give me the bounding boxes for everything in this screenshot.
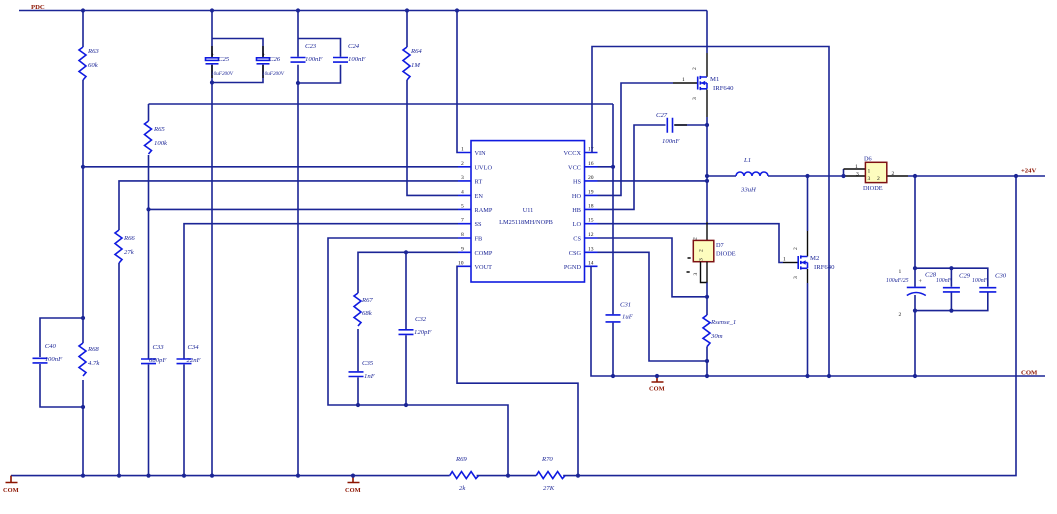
- capacitor C33: [141, 344, 167, 364]
- wire VIN pin1 from rail: [457, 11, 458, 153]
- wire UVLO pin2: [83, 166, 458, 168]
- capacitor C25 polarized: [206, 53, 234, 77]
- svg-text:2: 2: [699, 249, 705, 252]
- wire C26 black legs: [262, 46, 264, 78]
- svg-text:C23: C23: [305, 43, 317, 50]
- ground COM mid-bottom: [345, 476, 361, 494]
- svg-text:COM: COM: [649, 386, 665, 393]
- svg-text:DIODE: DIODE: [716, 251, 736, 258]
- node PDC top rail: [19, 4, 707, 11]
- svg-text:CS: CS: [573, 236, 581, 243]
- wire FB pin8 network: [328, 238, 508, 476]
- svg-text:VCCX: VCCX: [564, 150, 582, 157]
- svg-text:18: 18: [588, 203, 594, 209]
- svg-text:HO: HO: [572, 193, 582, 200]
- capacitor C27: [656, 112, 680, 145]
- capacitor C30: [972, 273, 1007, 292]
- svg-text:7: 7: [461, 218, 464, 224]
- wire HB pin18 to C27: [598, 125, 708, 209]
- svg-text:R63: R63: [87, 48, 99, 55]
- svg-text:RT: RT: [475, 178, 483, 185]
- svg-text:VOUT: VOUT: [475, 264, 493, 271]
- svg-text:12: 12: [588, 232, 594, 238]
- wire R63 bottom to UVLO tap to C40/R68 top: [82, 80, 84, 343]
- svg-text:C35: C35: [362, 360, 374, 367]
- svg-text:HS: HS: [573, 178, 582, 185]
- wire C32 column: [405, 252, 407, 405]
- wire VCC net: pin16 to R65 run and C31: [598, 104, 614, 376]
- svg-text:3: 3: [699, 258, 705, 261]
- svg-text:C31: C31: [620, 302, 631, 309]
- svg-text:SS: SS: [475, 221, 483, 228]
- inductor L1 33uH: [736, 157, 768, 194]
- wire bottom ground rail: [11, 176, 1016, 476]
- wire R63 column top lead: [82, 11, 84, 48]
- diode D6: [855, 156, 895, 193]
- wire C25/C26 column: [212, 11, 263, 476]
- svg-text:2: 2: [892, 171, 895, 177]
- svg-text:UVLO: UVLO: [475, 164, 493, 171]
- svg-text:2: 2: [692, 67, 698, 70]
- svg-text:U11: U11: [523, 207, 534, 214]
- svg-text:120pF: 120pF: [414, 329, 432, 336]
- svg-text:3: 3: [856, 172, 859, 178]
- svg-text:680pF: 680pF: [149, 357, 167, 364]
- resistor R63: [79, 47, 99, 80]
- capacitor C23: [291, 43, 324, 63]
- svg-text:C26: C26: [269, 56, 281, 63]
- wire output cap bank: [915, 176, 988, 376]
- wire +24V output rail: [908, 175, 1045, 177]
- svg-text:R65: R65: [153, 126, 165, 133]
- svg-text:100nF: 100nF: [662, 138, 680, 145]
- svg-text:4: 4: [461, 189, 464, 195]
- svg-text:COMP: COMP: [475, 250, 493, 257]
- wire R65 leads: [148, 104, 150, 209]
- svg-text:1: 1: [868, 169, 871, 175]
- resistor R67: [354, 293, 373, 326]
- svg-text:C29: C29: [959, 273, 971, 280]
- svg-text:100nF: 100nF: [305, 56, 323, 63]
- wire C33 column: [148, 209, 150, 475]
- svg-text:R64: R64: [410, 48, 422, 55]
- wire D7 pin2 stub: [706, 222, 708, 240]
- svg-text:D6: D6: [864, 156, 872, 163]
- wire D7 bottom bracket: [701, 262, 708, 283]
- transistor M1 IRF640: [682, 67, 734, 100]
- svg-text:27K: 27K: [543, 485, 555, 492]
- svg-text:20: 20: [588, 175, 594, 181]
- svg-text:PGND: PGND: [564, 264, 582, 271]
- resistor R66: [115, 230, 135, 263]
- svg-text:LM25118MH/NOPB: LM25118MH/NOPB: [499, 219, 553, 226]
- wire R68 bottom to ground rail: [82, 380, 84, 476]
- wire HS pin20: [598, 180, 708, 182]
- svg-text:100k: 100k: [154, 140, 168, 147]
- svg-text:1M: 1M: [411, 62, 420, 69]
- svg-text:22nF: 22nF: [187, 357, 202, 364]
- capacitor C24: [333, 43, 366, 63]
- svg-text:4.7k: 4.7k: [88, 360, 100, 367]
- wire VCCX pin17 to ground run: [592, 47, 829, 377]
- svg-text:COM: COM: [1021, 370, 1038, 377]
- capacitor C32: [399, 316, 433, 336]
- svg-text:1: 1: [682, 77, 685, 83]
- svg-text:1: 1: [899, 269, 902, 275]
- svg-text:10uF200V: 10uF200V: [211, 71, 234, 77]
- svg-text:L1: L1: [743, 157, 751, 164]
- svg-text:100nF: 100nF: [972, 278, 988, 284]
- wire CS pin12 to sense resistor top: [598, 238, 708, 297]
- wire C25 black legs: [211, 46, 213, 78]
- svg-text:C25: C25: [218, 56, 230, 63]
- svg-text:RAMP: RAMP: [475, 207, 493, 214]
- diode D7: [687, 237, 736, 276]
- svg-text:C32: C32: [415, 316, 427, 323]
- svg-text:68k: 68k: [362, 310, 373, 317]
- wire C40 parallel box: [40, 318, 83, 407]
- wire R64 column and EN pin4: [407, 11, 458, 196]
- capacitor C31: [606, 302, 634, 322]
- svg-text:VCC: VCC: [568, 164, 581, 171]
- svg-text:27k: 27k: [124, 249, 135, 256]
- svg-text:2: 2: [877, 176, 880, 182]
- wire SS pin7 with C34 column: [184, 224, 458, 476]
- svg-text:2k: 2k: [459, 485, 466, 492]
- wire M1 source to SW: [706, 90, 708, 118]
- svg-text:R69: R69: [455, 456, 467, 463]
- wire C23/C24 column: [298, 11, 341, 476]
- svg-text:19: 19: [588, 189, 594, 195]
- resistor R68: [79, 343, 100, 376]
- capacitor C29: [936, 273, 971, 292]
- capacitor C35: [349, 360, 376, 380]
- transistor M2 IRF640: [783, 247, 835, 279]
- svg-text:M1: M1: [710, 76, 719, 83]
- svg-text:5: 5: [461, 203, 464, 209]
- svg-text:3: 3: [692, 97, 698, 100]
- wire CSG pin13 to sense resistor bottom: [598, 252, 708, 361]
- svg-text:R67: R67: [361, 297, 373, 304]
- resistor R65: [145, 121, 169, 154]
- svg-text:D7: D7: [716, 242, 724, 249]
- svg-text:1: 1: [783, 257, 786, 263]
- svg-text:R66: R66: [123, 235, 135, 242]
- svg-text:3: 3: [461, 175, 464, 181]
- svg-text:14: 14: [588, 260, 594, 266]
- svg-text:33uH: 33uH: [740, 187, 757, 194]
- wire sense resistor leads: [706, 297, 708, 376]
- svg-text:100nF: 100nF: [348, 56, 366, 63]
- wire RT pin3 with R66 column: [119, 181, 458, 476]
- svg-text:C33: C33: [153, 344, 165, 351]
- ground COM left: [3, 476, 19, 494]
- svg-text:C40: C40: [45, 343, 57, 350]
- svg-text:30m: 30m: [710, 333, 723, 340]
- resistor R64: [403, 47, 422, 80]
- wire LO pin15 to M2 gate: [598, 224, 784, 263]
- svg-text:CSG: CSG: [569, 250, 582, 257]
- svg-text:8: 8: [461, 232, 464, 238]
- svg-text:100uF/25: 100uF/25: [886, 278, 909, 284]
- svg-text:9: 9: [461, 246, 464, 252]
- svg-text:10: 10: [458, 260, 464, 266]
- svg-text:C30: C30: [995, 273, 1007, 280]
- resistor R70: [536, 456, 565, 492]
- wire VCC top run y=104: [149, 103, 614, 105]
- svg-text:HB: HB: [572, 207, 581, 214]
- svg-text:2: 2: [693, 237, 699, 240]
- svg-text:3: 3: [793, 276, 799, 279]
- svg-text:Rsense_1: Rsense_1: [710, 319, 736, 326]
- wire D6 pin stubs: [844, 169, 909, 176]
- wire M2 gate stub: [783, 262, 798, 264]
- svg-text:100nF: 100nF: [936, 278, 952, 284]
- resistor R69: [450, 456, 479, 492]
- capacitor C28 100uF/25 polarized: [886, 269, 937, 318]
- svg-text:10uF200V: 10uF200V: [262, 71, 285, 77]
- svg-text:IRF640: IRF640: [814, 264, 835, 271]
- svg-text:DIODE: DIODE: [863, 185, 883, 192]
- capacitor C34: [177, 344, 202, 364]
- svg-text:2: 2: [461, 161, 464, 167]
- svg-text:3: 3: [868, 176, 871, 182]
- svg-text:R68: R68: [87, 346, 99, 353]
- svg-text:1: 1: [461, 147, 464, 153]
- svg-text:100nF: 100nF: [45, 356, 63, 363]
- wire COMP pin9: [358, 252, 458, 405]
- svg-text:VIN: VIN: [475, 150, 487, 157]
- svg-text:COM: COM: [345, 487, 361, 494]
- ground COM mid rail: [649, 376, 665, 393]
- capacitor C40: [33, 343, 64, 363]
- svg-text:LO: LO: [573, 221, 582, 228]
- svg-text:EN: EN: [475, 193, 484, 200]
- wire M1 gate stub: [673, 82, 698, 84]
- svg-text:C24: C24: [348, 43, 360, 50]
- wire VOUT pin10 sense run: [457, 266, 578, 475]
- IC U11 LM25118MH/NOPB: [458, 141, 598, 282]
- svg-text:17: 17: [588, 147, 594, 153]
- svg-text:C34: C34: [188, 344, 200, 351]
- svg-text:FB: FB: [475, 236, 483, 243]
- svg-text:16: 16: [588, 161, 594, 167]
- svg-text:1: 1: [855, 164, 858, 170]
- svg-text:13: 13: [588, 246, 594, 252]
- wire M2 drain from SW-L1 junction: [807, 176, 809, 231]
- resistor Rsense_1 30m: [703, 315, 736, 347]
- svg-text:2: 2: [899, 312, 902, 318]
- svg-text:1uF: 1uF: [622, 314, 634, 321]
- wire M2 source to ground rail: [807, 269, 809, 283]
- wire HO pin19 to M1 gate: [598, 83, 674, 195]
- svg-text:+24V: +24V: [1021, 168, 1036, 175]
- svg-text:15: 15: [588, 218, 594, 224]
- wire L1 leads: [707, 169, 844, 176]
- capacitor C26 polarized: [257, 53, 285, 77]
- svg-text:1nF: 1nF: [364, 373, 376, 380]
- svg-text:PDC: PDC: [31, 4, 45, 11]
- wire SW node: rail to M1 drain: [706, 11, 708, 54]
- svg-text:IRF640: IRF640: [713, 85, 734, 92]
- svg-text:R70: R70: [541, 456, 553, 463]
- wire RAMP pin5: [149, 208, 459, 210]
- svg-text:M2: M2: [810, 255, 819, 262]
- svg-text:3: 3: [693, 273, 699, 276]
- svg-text:COM: COM: [3, 487, 19, 494]
- svg-text:60k: 60k: [88, 62, 99, 69]
- wire PGND pin14 to mid ground rail: [591, 266, 1045, 376]
- svg-text:C27: C27: [656, 112, 668, 119]
- svg-text:2: 2: [793, 247, 799, 250]
